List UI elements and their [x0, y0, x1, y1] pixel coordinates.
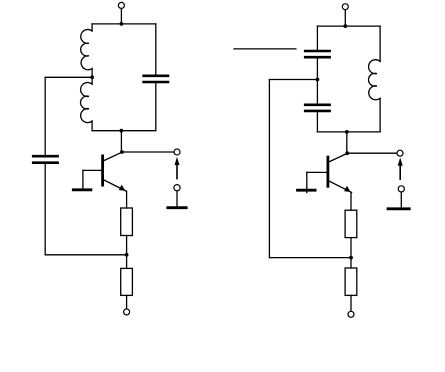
- wire tank right top: [155, 24, 157, 75]
- wire to ground (right output): [400, 192, 402, 208]
- wire base down: [82, 170, 84, 188]
- wire P3 to top node: [344, 10, 346, 26]
- wire tap cap top: [44, 77, 46, 155]
- node (bottom tank junction right): [345, 130, 349, 134]
- wire bottom tank horizontal: [92, 130, 156, 132]
- ground (base, left): [72, 188, 92, 191]
- wire R3 to node: [350, 238, 352, 258]
- wire P1 to top node: [120, 9, 122, 24]
- wire bottom tank horizontal right: [317, 131, 380, 133]
- wire coil to tap: [91, 69, 93, 85]
- wire feedback vertical right: [268, 80, 270, 258]
- wire top tank horizontal: [92, 23, 156, 25]
- transistor Q1: [83, 152, 126, 191]
- resistor R3 (emitter right): [345, 210, 357, 237]
- node (between R1 R2): [125, 253, 129, 257]
- ground (left output): [166, 206, 187, 209]
- inductor L1 lower half: [81, 83, 93, 123]
- inductor L2: [369, 60, 381, 100]
- terminal output 2 (left): [174, 185, 180, 191]
- wire tank right top (to coil): [379, 26, 381, 61]
- wire tap to left: [269, 79, 317, 81]
- inductor L1 upper half: [81, 29, 92, 69]
- wire R1 to node: [126, 236, 128, 255]
- ground (right output): [387, 207, 411, 210]
- wire tank left top: [316, 26, 318, 50]
- resistor R2: [121, 268, 133, 295]
- arrow (voltage, right): [398, 158, 403, 180]
- terminal output (right): [397, 150, 403, 156]
- terminal P2 (bottom left circuit): [124, 309, 130, 315]
- wire coil bottom right: [379, 98, 381, 132]
- wire top tank horizontal right: [317, 25, 380, 27]
- wire node to R4: [350, 258, 352, 268]
- capacitor C3: [304, 51, 331, 57]
- node (cap tap): [316, 78, 320, 82]
- wire emitter down: [126, 191, 128, 208]
- arrow (voltage, left): [175, 157, 180, 179]
- wire cap bottom down: [44, 164, 46, 255]
- wire tank to collector node right: [346, 132, 348, 153]
- wire feedback horizontal: [45, 254, 126, 256]
- wire to ground (left output): [176, 191, 178, 207]
- node (collector): [120, 150, 124, 154]
- ground (base, right): [296, 189, 316, 192]
- terminal output 2 (right): [398, 186, 404, 192]
- wire base down right: [306, 172, 308, 192]
- wire C4 bottom: [316, 112, 318, 132]
- resistor R4: [345, 268, 357, 295]
- wire tap to left: [45, 76, 92, 78]
- wire tank right bottom: [155, 83, 157, 130]
- wire collector to output: [122, 151, 174, 153]
- wire node to R2: [126, 255, 128, 269]
- node (top tank junction): [120, 22, 124, 26]
- node (between R3 R4): [349, 256, 353, 260]
- wire tank to collector node: [120, 131, 122, 152]
- wire feedback horizontal right: [269, 257, 351, 259]
- wire collector to output right: [347, 152, 397, 154]
- wire C3 to tap node: [316, 59, 318, 104]
- wire R4 to terminal: [350, 295, 352, 311]
- terminal output (left): [174, 149, 180, 155]
- capacitor C1 (tank): [142, 76, 169, 82]
- transistor Q2: [307, 153, 352, 192]
- wire emitter down right: [350, 193, 352, 211]
- capacitor C2 (feedback, left): [32, 156, 59, 163]
- terminal P3 (Vcc, top right circuit): [342, 4, 348, 10]
- node (top tank junction right): [343, 24, 347, 28]
- wire into coil top: [91, 24, 93, 31]
- terminal P4 (bottom right circuit): [348, 311, 354, 317]
- resistor R1 (emitter): [121, 208, 133, 236]
- separator line: [234, 48, 296, 50]
- terminal P1 (Vcc, top left circuit): [118, 2, 124, 8]
- wire R2 to terminal: [126, 295, 128, 308]
- node (bottom tank junction): [120, 129, 124, 133]
- wire coil bottom: [91, 121, 93, 131]
- capacitor C4: [304, 105, 331, 111]
- node (collector right): [345, 151, 349, 155]
- node (tap): [90, 75, 94, 79]
